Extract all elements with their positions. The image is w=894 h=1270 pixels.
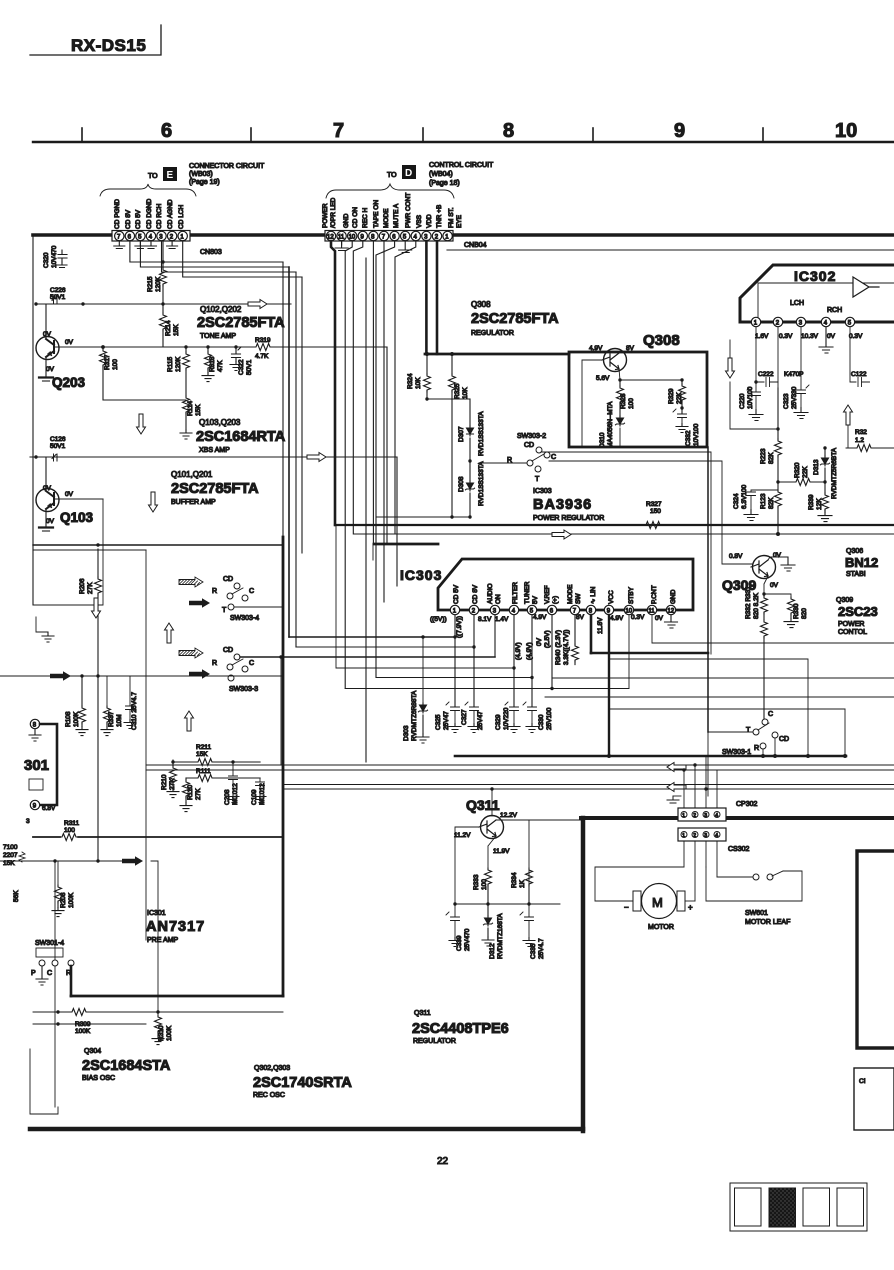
transistor Q311 bbox=[481, 816, 504, 839]
Q309 wires bbox=[549, 461, 788, 594]
IC303 pin 2 bbox=[469, 605, 478, 614]
svg-text:TAPE ON: TAPE ON bbox=[373, 200, 380, 228]
svg-text:R332 R331: R332 R331 bbox=[745, 586, 752, 619]
ground under R110 bbox=[180, 803, 192, 812]
svg-text:4.9V: 4.9V bbox=[589, 345, 603, 352]
svg-text:RVDMTZ5R6BTA: RVDMTZ5R6BTA bbox=[831, 447, 838, 499]
svg-text:Q203: Q203 bbox=[52, 375, 86, 390]
bundle wire x296 bbox=[295, 272, 297, 647]
hollow up arrow under SW303-4 bbox=[165, 623, 174, 643]
svg-text:25V4.7: 25V4.7 bbox=[538, 938, 545, 959]
IC303 block thick outline bbox=[438, 559, 693, 610]
CN804 pin 10 bbox=[348, 231, 357, 240]
svg-text:BIAS OSC: BIAS OSC bbox=[82, 1075, 115, 1082]
svg-text:11: 11 bbox=[648, 609, 655, 615]
CN804 drop wire 8 bbox=[372, 241, 374, 544]
IC303 pin 1 bbox=[450, 605, 459, 614]
IC302 pin 3 bbox=[796, 317, 805, 326]
Q308 wires bbox=[582, 352, 620, 447]
svg-text:10V100: 10V100 bbox=[693, 423, 700, 446]
svg-text:SW601: SW601 bbox=[745, 910, 768, 917]
svg-text:10K: 10K bbox=[415, 377, 422, 389]
svg-text:V.REF: V.REF bbox=[544, 585, 551, 604]
SW303-1 CD drop wire bbox=[774, 738, 776, 756]
IC303 pin 4 bbox=[509, 605, 518, 614]
switch SW303-3 striped arrow bbox=[179, 648, 203, 658]
IC303 pin 10 bbox=[624, 605, 633, 614]
svg-text:CD AGND: CD AGND bbox=[167, 199, 174, 229]
svg-text:C325: C325 bbox=[435, 714, 442, 730]
IC303 pin 6 bbox=[547, 605, 556, 614]
hollow down arrow under R206 bbox=[92, 598, 101, 618]
svg-text:120K: 120K bbox=[175, 356, 182, 372]
svg-text:RVD1SS133TA: RVD1SS133TA bbox=[478, 461, 485, 506]
CN803 pin 4 bbox=[146, 231, 155, 240]
svg-text:Q101,Q201: Q101,Q201 bbox=[171, 470, 213, 479]
svg-text:C323: C323 bbox=[783, 393, 790, 409]
svg-text:R340 (2.3V): R340 (2.3V) bbox=[555, 630, 562, 665]
wire x808 riser bbox=[609, 659, 808, 756]
svg-text:IC302: IC302 bbox=[794, 268, 836, 284]
svg-text:R318: R318 bbox=[209, 356, 216, 372]
svg-text:R327: R327 bbox=[646, 501, 662, 508]
svg-text:50V1: 50V1 bbox=[246, 359, 253, 375]
ground under R337 bbox=[101, 727, 113, 736]
svg-text:11: 11 bbox=[338, 235, 345, 241]
switch SW601 bbox=[753, 874, 759, 880]
ground under C324 bbox=[744, 510, 758, 521]
svg-text:Q308: Q308 bbox=[643, 332, 680, 349]
svg-text:POWER REGULATOR: POWER REGULATOR bbox=[533, 515, 604, 522]
svg-text:C329: C329 bbox=[495, 714, 502, 730]
svg-text:CNB04: CNB04 bbox=[464, 242, 487, 249]
ground under CN803 pin5 bbox=[135, 241, 146, 249]
svg-text:Q304: Q304 bbox=[84, 1048, 101, 1055]
ground stub left of CP302 bbox=[667, 796, 679, 803]
brace over CN804 bbox=[326, 184, 454, 198]
ground under R114 bbox=[180, 430, 192, 439]
IC303 feeder thick wire bbox=[374, 543, 438, 546]
transistor Q308 bbox=[604, 349, 627, 372]
svg-text:SW303-3: SW303-3 bbox=[229, 686, 258, 693]
wire q311 to box bbox=[529, 819, 583, 821]
svg-text:CP302: CP302 bbox=[736, 801, 758, 808]
svg-text:C220: C220 bbox=[739, 393, 746, 409]
svg-text:MOTOR: MOTOR bbox=[648, 924, 674, 931]
svg-text:2SC2785FTA: 2SC2785FTA bbox=[471, 311, 559, 327]
svg-text:Q311: Q311 bbox=[466, 797, 500, 813]
svg-text:ON: ON bbox=[495, 594, 502, 604]
IC303 pin4 drop wire bbox=[513, 615, 515, 706]
svg-text:100: 100 bbox=[628, 398, 635, 409]
svg-text:1.6V: 1.6V bbox=[755, 333, 769, 340]
ground under C320 bbox=[57, 262, 67, 268]
ruler tick 5/6 bbox=[81, 128, 83, 142]
CN804 drop wire 12 thick bbox=[331, 241, 335, 525]
ground under C323 bbox=[794, 408, 808, 419]
svg-text:120K: 120K bbox=[155, 276, 162, 292]
capacitor C322 bbox=[232, 347, 242, 362]
svg-text:R: R bbox=[754, 745, 759, 752]
wire r324 bottom row bbox=[427, 398, 470, 400]
svg-text:1K: 1K bbox=[519, 879, 526, 888]
svg-text:3: 3 bbox=[704, 833, 707, 839]
svg-text:R223: R223 bbox=[760, 448, 767, 464]
wire buffer drop bbox=[396, 457, 398, 586]
svg-text:25V470: 25V470 bbox=[464, 928, 471, 951]
IC302 block thick outline bbox=[740, 265, 894, 322]
svg-text:GND: GND bbox=[343, 213, 350, 228]
svg-text:MUTE A: MUTE A bbox=[393, 203, 400, 228]
IC303 pin 11 bbox=[647, 605, 656, 614]
IC303 pin5 drop wire bbox=[531, 615, 533, 706]
wire pin8 thick drop bbox=[590, 615, 593, 653]
IC301 pin 9 bbox=[30, 800, 39, 809]
svg-text:D307: D307 bbox=[458, 426, 465, 442]
svg-text:CN803: CN803 bbox=[200, 249, 222, 256]
SW303-1 pole wire bbox=[708, 732, 753, 796]
svg-text:0V: 0V bbox=[65, 339, 74, 346]
ground stub wire bbox=[36, 617, 48, 632]
svg-text:TO: TO bbox=[148, 173, 158, 180]
svg-text:15K: 15K bbox=[195, 404, 202, 416]
resistor R332 bbox=[761, 620, 768, 638]
wire preamp bus bbox=[33, 836, 283, 838]
IC302 pin 5 bbox=[845, 317, 854, 326]
wire x281 drop bbox=[280, 657, 282, 765]
CS302 drop wires bbox=[684, 841, 717, 901]
svg-text:R215: R215 bbox=[147, 276, 154, 292]
CN803 pin 1 bbox=[178, 231, 187, 240]
svg-text:VDD: VDD bbox=[426, 214, 433, 228]
page indicator outer box bbox=[730, 1183, 867, 1231]
ground under C208 bbox=[227, 794, 239, 803]
bottom box right thick wire bbox=[581, 818, 586, 1131]
svg-text:4.7K: 4.7K bbox=[255, 353, 269, 360]
wire from SW303-4 T to box edge bbox=[234, 606, 283, 608]
ruler tick 7/8 bbox=[422, 128, 424, 142]
bundle wire x283 bbox=[282, 262, 284, 545]
ground under SW301-4 P bbox=[36, 966, 48, 985]
svg-text:0V: 0V bbox=[46, 366, 55, 373]
svg-text:7: 7 bbox=[333, 120, 344, 142]
motor M bbox=[642, 884, 677, 919]
svg-text:27K: 27K bbox=[195, 788, 202, 800]
svg-text:8: 8 bbox=[503, 120, 514, 142]
svg-text:CD DGND: CD DGND bbox=[146, 198, 153, 229]
svg-text:C324: C324 bbox=[733, 493, 740, 509]
svg-text:R333: R333 bbox=[473, 874, 480, 890]
power rail thick wire bbox=[335, 524, 894, 526]
svg-text:REGULATOR: REGULATOR bbox=[413, 1038, 456, 1045]
svg-text:−: − bbox=[624, 903, 629, 912]
wire row 647 bbox=[296, 646, 474, 648]
ground under IC303 pin12 bbox=[665, 615, 678, 628]
svg-text:(4.9V): (4.9V) bbox=[515, 642, 522, 660]
svg-text:1.4V: 1.4V bbox=[495, 616, 509, 623]
wire pin11 drop bend bbox=[652, 615, 894, 643]
ground under R108 bbox=[76, 727, 88, 736]
svg-text:820 8.2K: 820 8.2K bbox=[753, 592, 760, 619]
svg-text:10: 10 bbox=[835, 120, 857, 142]
ground under C322 bbox=[230, 362, 242, 371]
CN804 pin 7 bbox=[379, 231, 388, 240]
svg-text:R309: R309 bbox=[75, 1021, 91, 1028]
wire C222 row bbox=[730, 382, 778, 429]
svg-text:25V47: 25V47 bbox=[477, 711, 484, 730]
svg-text:0V: 0V bbox=[46, 518, 55, 525]
resistor R318 bbox=[205, 352, 212, 370]
svg-text:IC301: IC301 bbox=[147, 910, 166, 917]
IC303 pin1 drop wire bbox=[454, 615, 456, 706]
svg-text:VSS: VSS bbox=[416, 214, 423, 228]
svg-text:RVD1SS133TA: RVD1SS133TA bbox=[478, 411, 485, 456]
svg-text:12.2V: 12.2V bbox=[500, 812, 518, 819]
bottom left corner wire bbox=[30, 1049, 58, 1114]
Q311 wires bbox=[455, 789, 529, 904]
svg-text:3.3K((4.7V)): 3.3K((4.7V)) bbox=[563, 630, 570, 665]
svg-text:R320: R320 bbox=[794, 462, 801, 478]
hollow down arrow left of C220 bbox=[729, 340, 731, 358]
IC303 pin 5 bbox=[527, 605, 536, 614]
ground under Q103 bbox=[39, 526, 53, 528]
svg-text:(WB03): (WB03) bbox=[189, 171, 213, 178]
svg-text:15K: 15K bbox=[196, 751, 208, 758]
svg-text:0.3V: 0.3V bbox=[849, 333, 863, 340]
svg-text:R317: R317 bbox=[104, 354, 111, 370]
wire pair lower rows bbox=[146, 764, 894, 766]
wire row 678 bbox=[552, 677, 894, 679]
ground under C332 bbox=[676, 424, 688, 433]
svg-text:11.8V: 11.8V bbox=[597, 617, 604, 634]
svg-text:0V: 0V bbox=[655, 615, 664, 622]
wire amp mid row bbox=[55, 346, 254, 348]
svg-text:CS302: CS302 bbox=[728, 846, 750, 853]
svg-text:25V100: 25V100 bbox=[546, 707, 553, 730]
svg-text:IC303: IC303 bbox=[400, 567, 442, 583]
resistor R214 bbox=[160, 313, 167, 331]
svg-text:D308: D308 bbox=[458, 476, 465, 492]
svg-text:STBY: STBY bbox=[628, 586, 635, 604]
Q308 block down thick wire bbox=[707, 447, 709, 732]
motor left wire bbox=[595, 867, 684, 901]
CN804 pin 12 bbox=[326, 231, 335, 240]
IC303 pin6 drop wire bbox=[551, 615, 553, 689]
CN804 drop wire 9 bbox=[353, 241, 894, 534]
CN804 pin 9 bbox=[358, 231, 367, 240]
thick corner wire pin8 to bus bbox=[591, 652, 708, 655]
svg-text:0V: 0V bbox=[770, 582, 779, 589]
svg-text:100: 100 bbox=[112, 359, 119, 370]
svg-text:EYE: EYE bbox=[456, 214, 463, 228]
CN804 pin 11 bbox=[337, 231, 346, 240]
svg-text:R108: R108 bbox=[65, 711, 72, 727]
svg-text:0.8V: 0.8V bbox=[729, 553, 743, 560]
wire mid row with arrow bbox=[0, 675, 283, 677]
wire row 697 bbox=[545, 696, 894, 698]
svg-text:SW301-4: SW301-4 bbox=[35, 940, 64, 947]
title box RX-DS15 bbox=[30, 25, 161, 55]
ground under R339 bbox=[818, 513, 832, 522]
ground under CN803 pin2 bbox=[167, 241, 178, 249]
wire row 709 bbox=[609, 708, 845, 710]
CN804 drop wire 3 thick bbox=[425, 241, 428, 354]
left box right edge thick wire bbox=[282, 537, 285, 996]
svg-text:REC OSC: REC OSC bbox=[253, 1092, 285, 1099]
svg-text:4: 4 bbox=[715, 833, 718, 839]
page indicator box 4 bbox=[837, 1188, 864, 1226]
svg-text:C335: C335 bbox=[530, 943, 537, 959]
ground under C310 bbox=[124, 720, 136, 729]
svg-text:STABI: STABI bbox=[846, 571, 866, 578]
CN803 connector body bbox=[112, 231, 190, 242]
SW303-1 R drop wire bbox=[762, 749, 764, 756]
right block thick outline bbox=[857, 851, 894, 1048]
svg-text:0.3V: 0.3V bbox=[779, 333, 793, 340]
CN804 pin 8 bbox=[369, 231, 378, 240]
svg-text:2SC1740SRTA: 2SC1740SRTA bbox=[253, 1075, 352, 1091]
svg-text:C310 25V4.7: C310 25V4.7 bbox=[131, 692, 138, 730]
svg-text:11.2V: 11.2V bbox=[454, 832, 471, 839]
svg-text:CD PGND: CD PGND bbox=[114, 199, 121, 229]
wire x845 riser bbox=[844, 709, 846, 756]
IC303 pin 8 bbox=[586, 605, 595, 614]
svg-text:REGULATOR: REGULATOR bbox=[471, 330, 514, 337]
bundle wire x302 bbox=[301, 277, 303, 553]
svg-text:301: 301 bbox=[24, 757, 49, 774]
svg-text:R211: R211 bbox=[196, 744, 211, 751]
IC302 pin 1 bbox=[751, 317, 760, 326]
svg-text:100K: 100K bbox=[166, 1025, 173, 1041]
resistor R340 bbox=[574, 615, 576, 644]
wire xbs row bbox=[103, 399, 186, 401]
svg-text:C330: C330 bbox=[538, 714, 545, 730]
svg-text:CONNECTOR CIRCUIT: CONNECTOR CIRCUIT bbox=[189, 163, 265, 170]
svg-text:R311: R311 bbox=[64, 820, 79, 827]
small box bbox=[29, 779, 43, 790]
svg-text:R111: R111 bbox=[196, 768, 211, 775]
CN803 pin 2 bbox=[167, 231, 176, 240]
svg-text:(+): (+) bbox=[552, 596, 559, 604]
solid arrow under power rail bbox=[552, 530, 571, 539]
svg-text:820: 820 bbox=[801, 608, 808, 619]
svg-text:CONTOL: CONTOL bbox=[838, 629, 867, 636]
svg-text:FILTER: FILTER bbox=[512, 582, 519, 604]
svg-text:9: 9 bbox=[674, 120, 685, 142]
svg-text:XBS AMP: XBS AMP bbox=[199, 447, 230, 454]
svg-text:1.2: 1.2 bbox=[855, 437, 864, 444]
svg-text:P.CNT: P.CNT bbox=[651, 585, 658, 604]
svg-text:R329: R329 bbox=[668, 388, 675, 404]
svg-text:C: C bbox=[47, 970, 52, 977]
small box bottom right bbox=[854, 1068, 894, 1130]
svg-text:0V: 0V bbox=[773, 552, 782, 559]
bottom page border thick wire bbox=[30, 1127, 583, 1132]
ruler line bbox=[33, 141, 894, 143]
svg-text:0V: 0V bbox=[43, 485, 52, 492]
hollow left arrow row1 bbox=[667, 763, 686, 772]
ground under CN803 pin4 bbox=[146, 241, 157, 249]
wire vcc to sw bbox=[608, 755, 610, 757]
ground under C335 bbox=[523, 938, 535, 947]
svg-text:Q103: Q103 bbox=[60, 510, 94, 525]
svg-text:C: C bbox=[249, 660, 254, 667]
svg-text:CD: CD bbox=[223, 576, 233, 583]
bottom right thick bus wire bbox=[581, 816, 894, 820]
IC303 pin 3 bbox=[490, 605, 499, 614]
svg-text:CD: CD bbox=[524, 442, 534, 449]
svg-text:100K: 100K bbox=[75, 1028, 91, 1035]
hollow arrow on buffer row bbox=[307, 453, 326, 462]
svg-text:8V: 8V bbox=[626, 345, 635, 352]
page indicator box 1 bbox=[735, 1188, 762, 1226]
svg-text:CD RCH: CD RCH bbox=[156, 203, 163, 229]
IC303 pin 7 bbox=[570, 605, 579, 614]
CN803 pin 7 bbox=[115, 231, 124, 240]
wire buffer row bbox=[30, 456, 397, 458]
ground symbol left bbox=[42, 632, 54, 642]
svg-text:C332: C332 bbox=[685, 430, 692, 446]
IC302 pin 2 bbox=[773, 317, 782, 326]
svg-text:MOTOR LEAF: MOTOR LEAF bbox=[745, 919, 790, 926]
svg-text:0.3V: 0.3V bbox=[631, 614, 645, 621]
CN804 pin 5 bbox=[401, 231, 410, 240]
bundle wire x289 bbox=[288, 267, 290, 637]
svg-text:CONTROL CIRCUIT: CONTROL CIRCUIT bbox=[429, 162, 494, 169]
svg-text:R: R bbox=[212, 660, 217, 667]
svg-text:+: + bbox=[688, 903, 693, 912]
power thick wire lower bbox=[455, 755, 846, 758]
op-amp triangle bbox=[853, 277, 879, 297]
svg-text:D310: D310 bbox=[599, 432, 606, 448]
CN804 connector body bbox=[325, 231, 453, 242]
svg-text:5.6V: 5.6V bbox=[596, 375, 610, 382]
CN804 drop wire 6 bbox=[376, 241, 532, 678]
svg-text:D: D bbox=[405, 168, 412, 179]
svg-text:R123: R123 bbox=[760, 493, 767, 509]
svg-text:CD 5V: CD 5V bbox=[453, 584, 460, 604]
CP302 riser wires bbox=[684, 756, 717, 808]
wire top bus second line bbox=[447, 249, 894, 251]
svg-text:4: 4 bbox=[715, 813, 718, 819]
ruler tick 9/10 bbox=[762, 128, 764, 142]
svg-text:Q302,Q303: Q302,Q303 bbox=[254, 1065, 290, 1072]
svg-text:C320: C320 bbox=[43, 252, 50, 268]
D box bbox=[402, 165, 416, 179]
hollow left arrow row2 bbox=[667, 783, 686, 792]
svg-text:0V: 0V bbox=[536, 637, 543, 646]
page indicator box 2 (filled) bbox=[769, 1188, 796, 1227]
svg-text:R339: R339 bbox=[808, 494, 815, 510]
svg-text:LCH: LCH bbox=[790, 300, 804, 307]
svg-text:R214: R214 bbox=[165, 320, 172, 336]
svg-text:MA4056N--MTA: MA4056N--MTA bbox=[607, 401, 614, 448]
svg-text:R110: R110 bbox=[187, 785, 194, 800]
svg-text:(WB04): (WB04) bbox=[429, 171, 453, 178]
wire from Q103 collector bbox=[33, 499, 103, 605]
svg-text:REC H: REC H bbox=[362, 207, 369, 228]
main top bus wire bbox=[33, 233, 894, 237]
svg-text:T: T bbox=[222, 607, 227, 614]
wire pin9 VCC thick drop bbox=[608, 615, 610, 756]
ground under D312 bbox=[482, 937, 494, 946]
wire r223 drop bbox=[777, 388, 779, 439]
Q308 feeder thick wire bbox=[425, 353, 569, 356]
connector CP302 bbox=[678, 808, 726, 821]
resistor R114 bbox=[183, 396, 190, 414]
CN804 pin 3 bbox=[422, 231, 431, 240]
svg-text:C122: C122 bbox=[851, 371, 867, 378]
